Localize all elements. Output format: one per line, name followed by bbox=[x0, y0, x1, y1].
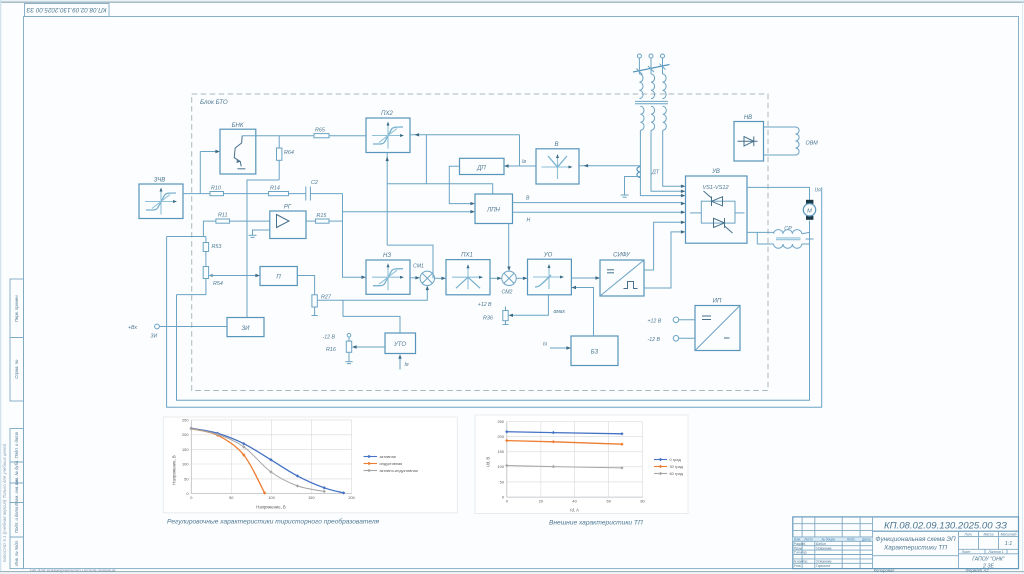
svg-text:Id, А: Id, А bbox=[570, 507, 579, 512]
BTO block dashed boundary bbox=[192, 94, 768, 391]
svg-text:Взам. инв. №: Взам. инв. № bbox=[14, 479, 19, 505]
block UO bbox=[528, 253, 572, 295]
wire phase B down to UV bbox=[651, 130, 681, 191]
svg-text:R36: R36 bbox=[483, 316, 493, 322]
svg-text:100: 100 bbox=[268, 495, 275, 500]
wire R27 wiper to SM1 bottom bbox=[318, 290, 428, 300]
wire R11 left to R53 chain bbox=[203, 221, 216, 236]
svg-text:150: 150 bbox=[182, 447, 189, 452]
svg-text:ЗИ: ЗИ bbox=[151, 334, 158, 340]
svg-text:nanoCAD 9.1 (учебная версия) Т: nanoCAD 9.1 (учебная версия) Только для … bbox=[2, 443, 7, 562]
svg-text:Напряжение, В: Напряжение, В bbox=[256, 505, 286, 510]
svg-text:Н.контр.: Н.контр. bbox=[794, 560, 808, 564]
svg-text:Т.контр.: Т.контр. bbox=[794, 551, 808, 555]
block BZ bbox=[571, 336, 618, 366]
wire LPN output N to UV bbox=[513, 211, 686, 224]
svg-text:М: М bbox=[807, 208, 812, 214]
terminal -12V bbox=[648, 336, 696, 344]
svg-text:200: 200 bbox=[498, 434, 505, 439]
svg-text:Гаршина: Гаршина bbox=[816, 564, 830, 568]
block V (rectifier) bbox=[536, 142, 579, 184]
wire ZChV output to R10 bbox=[183, 193, 210, 195]
wire SM2 to UO bbox=[516, 277, 523, 279]
resistor R15 bbox=[316, 213, 330, 223]
svg-text:Ud, В: Ud, В bbox=[486, 457, 491, 468]
block ZI bbox=[227, 318, 264, 337]
svg-text:-12 В: -12 В bbox=[323, 335, 336, 341]
svg-text:R27: R27 bbox=[321, 295, 332, 301]
svg-text:СИФУ: СИФУ bbox=[613, 253, 631, 259]
svg-text:C2: C2 bbox=[311, 180, 318, 186]
wire R65 to PKh2 bbox=[329, 135, 366, 137]
wire R54 wiper to P input bbox=[209, 275, 256, 277]
svg-text:активно-индуктивная: активно-индуктивная bbox=[380, 468, 418, 473]
resistor R65 bbox=[314, 128, 329, 138]
op-amp RG bbox=[249, 205, 307, 239]
capacitor C2 bbox=[306, 180, 318, 201]
motor M bbox=[803, 200, 815, 220]
svg-text:В: В bbox=[526, 196, 530, 202]
svg-text:ОВМ: ОВМ bbox=[806, 141, 819, 147]
resistor R10 bbox=[210, 186, 224, 196]
svg-text:Усманова: Усманова bbox=[816, 560, 831, 564]
svg-text:R15: R15 bbox=[317, 213, 328, 219]
title block bbox=[793, 517, 1019, 570]
svg-text:150: 150 bbox=[498, 449, 505, 454]
svg-text:ИП: ИП bbox=[713, 299, 722, 305]
wire SM1 to PKh1 bbox=[435, 277, 442, 279]
svg-text:Лист: Лист bbox=[961, 550, 971, 554]
svg-text:УТО: УТО bbox=[393, 342, 406, 348]
summing node SM1 bbox=[413, 264, 434, 286]
transformer 3-phase terminals bbox=[637, 54, 664, 67]
svg-text:100: 100 bbox=[498, 464, 505, 469]
potentiometer R16 bbox=[326, 337, 352, 353]
svg-text:Разраб.: Разраб. bbox=[794, 542, 806, 546]
svg-text:Функциональная схема ЭП: Функциональная схема ЭП bbox=[875, 536, 956, 543]
svg-text:Масса: Масса bbox=[983, 532, 993, 536]
wire y183.8 to LPN top bbox=[387, 184, 493, 194]
wire phase C with DT down to UV bbox=[640, 130, 681, 195]
wire outer feedback rail bbox=[167, 187, 822, 407]
block P bbox=[260, 267, 297, 286]
svg-text:200: 200 bbox=[182, 432, 189, 437]
wire SIFU output 2 to UV bbox=[644, 232, 681, 288]
wire BZ to UO right input bbox=[576, 288, 594, 337]
svg-text:+Вх: +Вх bbox=[128, 325, 137, 331]
svg-text:0 град: 0 град bbox=[670, 457, 682, 462]
svg-text:Регулировочные характеристики: Регулировочные характеристики тиристорно… bbox=[167, 518, 380, 526]
svg-text:Справ. №: Справ. № bbox=[14, 359, 19, 378]
svg-text:Uя: Uя bbox=[815, 188, 822, 194]
svg-text:Перв. примен.: Перв. примен. bbox=[14, 294, 19, 322]
wire x387 corner to SM1 node bbox=[387, 245, 433, 278]
rotated designation box top-left bbox=[25, 4, 110, 17]
block LPN bbox=[475, 194, 513, 224]
svg-text:ЗИ: ЗИ bbox=[242, 326, 251, 332]
block UTO bbox=[385, 333, 416, 354]
svg-text:НВ: НВ bbox=[744, 115, 752, 121]
block NV (exciter rectifier) bbox=[734, 115, 764, 161]
block PKh2 bbox=[366, 111, 410, 153]
svg-text:Iя: Iя bbox=[543, 342, 547, 348]
wire x247 vertical bbox=[246, 180, 248, 318]
wire C2 to node x342 bbox=[310, 193, 342, 195]
svg-text:Копировал: Копировал bbox=[874, 568, 895, 573]
svg-text:Н: Н bbox=[527, 218, 531, 224]
svg-text:КП.08.02.09.130.2025.00 ЗЗ: КП.08.02.09.130.2025.00 ЗЗ bbox=[884, 521, 1007, 532]
svg-text:Дата: Дата bbox=[861, 538, 871, 542]
svg-text:R11: R11 bbox=[218, 213, 228, 219]
svg-text:Лист: Лист bbox=[803, 538, 813, 542]
wire node x342 vertical down to NZ bbox=[343, 194, 362, 278]
svg-text:Характеристики ТП: Характеристики ТП bbox=[883, 545, 947, 552]
svg-text:Утв.: Утв. bbox=[794, 564, 802, 568]
transformer core bbox=[635, 100, 668, 102]
svg-text:R65: R65 bbox=[315, 128, 326, 134]
wire UV bottom output to reactor bbox=[747, 231, 774, 233]
wire UO to SIFU bbox=[571, 277, 595, 279]
wire R14 to C2 bbox=[289, 193, 306, 195]
svg-text:КП.08.02.09.130.2025.00 ЗЗ: КП.08.02.09.130.2025.00 ЗЗ bbox=[26, 6, 106, 13]
ground at transformer bbox=[621, 177, 641, 198]
svg-text:Подп.: Подп. bbox=[847, 538, 856, 542]
svg-text:П: П bbox=[276, 275, 281, 281]
svg-text:Iв: Iв bbox=[522, 159, 526, 165]
block PKh1 bbox=[446, 253, 490, 295]
terminal +12V bbox=[648, 317, 696, 325]
resistor R11 bbox=[216, 213, 230, 224]
input terminal Vkh bbox=[128, 324, 227, 339]
wire SIFU output 1 to UV bbox=[644, 222, 681, 270]
chart: external characteristics bbox=[475, 415, 688, 514]
svg-text:ГАПОУ "ОНК": ГАПОУ "ОНК" bbox=[972, 557, 1006, 563]
wire node to BNK input bbox=[199, 152, 201, 194]
current sensor DT bbox=[637, 167, 660, 178]
svg-text:150: 150 bbox=[308, 495, 315, 500]
svg-text:Формат А2: Формат А2 bbox=[966, 568, 990, 573]
wire tap x519 up to PKh2 line bbox=[519, 135, 521, 166]
svg-text:ДП: ДП bbox=[476, 165, 486, 171]
wire inner feedback rail bbox=[177, 244, 810, 400]
svg-text:Изм.: Изм. bbox=[794, 538, 801, 542]
svg-text:Листов 1: Листов 1 bbox=[987, 550, 1003, 554]
svg-text:30 град: 30 град bbox=[670, 464, 684, 469]
svg-text:1:1: 1:1 bbox=[1005, 541, 1013, 547]
svg-text:R16: R16 bbox=[326, 347, 336, 353]
wire PKh1 to SM2 bbox=[490, 277, 497, 279]
svg-text:Напряжение, В: Напряжение, В bbox=[172, 455, 177, 485]
svg-text:+12 В: +12 В bbox=[648, 319, 662, 325]
wire R64 stubs bbox=[278, 136, 280, 148]
block ZChV (speed setpoint) bbox=[139, 178, 183, 219]
resistor R53 bbox=[203, 237, 221, 252]
wire UO bottom to R36 (alpha max) bbox=[513, 295, 549, 316]
block BNK bbox=[220, 123, 256, 174]
svg-text:R10: R10 bbox=[211, 186, 221, 192]
wire phase A down to UV bbox=[663, 130, 681, 186]
svg-text:БЗ: БЗ bbox=[591, 349, 599, 355]
svg-text:ПХ1: ПХ1 bbox=[461, 253, 473, 259]
svg-text:Пров.: Пров. bbox=[794, 546, 803, 550]
svg-text:200: 200 bbox=[348, 495, 355, 500]
wire R53 top tie to outer rail bbox=[167, 236, 206, 238]
wire UTO top input from R27 node bbox=[343, 300, 400, 333]
wire PKh2 bottom vertical bbox=[386, 153, 388, 246]
wire R54 bottom to inner rail bbox=[177, 279, 206, 295]
wire P output to R27 bbox=[297, 276, 314, 295]
svg-text:+12 В: +12 В bbox=[478, 302, 492, 308]
wire RG to R15 to node bbox=[306, 220, 316, 222]
svg-text:Лит.: Лит. bbox=[964, 532, 973, 536]
svg-text:№ докум.: № докум. bbox=[821, 538, 835, 542]
wire DP output to LPN bbox=[449, 166, 470, 203]
chart: regulation characteristics bbox=[163, 417, 457, 513]
svg-text:СМ2: СМ2 bbox=[502, 290, 513, 296]
svg-text:Бабин: Бабин bbox=[816, 542, 826, 546]
wire R10 to R14 bbox=[224, 193, 269, 195]
wire junction x426 down to LPN top line bbox=[425, 135, 427, 184]
block UV thyristors VS1-VS12 bbox=[686, 169, 748, 243]
transformer primary windings bbox=[639, 67, 666, 99]
resistor R64 bbox=[277, 148, 294, 160]
svg-text:R54: R54 bbox=[213, 281, 223, 287]
wire node x342 to LPN left input bbox=[343, 211, 471, 213]
svg-text:ДТ: ДТ bbox=[651, 170, 660, 176]
svg-text:250: 250 bbox=[182, 417, 189, 422]
svg-text:ЗЧВ: ЗЧВ bbox=[154, 178, 166, 184]
svg-text:Подп. и дата: Подп. и дата bbox=[14, 431, 19, 458]
svg-text:индуктивная: индуктивная bbox=[380, 461, 403, 466]
wire PKh2 input from V tap bbox=[410, 134, 520, 136]
svg-text:В: В bbox=[554, 142, 558, 148]
svg-text:100: 100 bbox=[182, 461, 189, 466]
ground below R16 bbox=[345, 352, 352, 363]
block DP bbox=[460, 158, 505, 174]
resistor R14 bbox=[269, 186, 289, 196]
svg-text:Масштаб: Масштаб bbox=[1001, 532, 1017, 536]
wire V input from phase wire bbox=[579, 165, 640, 167]
wire UV output top to motor bbox=[747, 187, 810, 199]
svg-text:ЛПН: ЛПН bbox=[486, 208, 500, 214]
wire motor bottom to reactor node bbox=[809, 221, 811, 244]
svg-text:УВ: УВ bbox=[711, 169, 720, 175]
wire V output to DP bbox=[509, 165, 537, 167]
wire R11 right to RG bbox=[230, 220, 270, 222]
svg-text:αмах: αмах bbox=[554, 309, 566, 315]
block NZ bbox=[366, 253, 410, 294]
wire UTO bottom input Iya bbox=[398, 354, 409, 369]
svg-text:Подп. и дата: Подп. и дата bbox=[14, 506, 19, 533]
wire NZ to SM1 bbox=[410, 277, 416, 279]
svg-text:250: 250 bbox=[498, 419, 505, 424]
svg-text:Блок БТО: Блок БТО bbox=[200, 99, 228, 106]
potentiometer R27 bbox=[312, 295, 332, 316]
potentiometer R54 bbox=[203, 252, 223, 288]
left frame stamp cells bbox=[10, 279, 24, 569]
svg-text:-12 В: -12 В bbox=[648, 337, 661, 343]
breaker switch bbox=[633, 65, 670, 73]
svg-text:БНК: БНК bbox=[232, 123, 244, 129]
svg-text:СМ1: СМ1 bbox=[413, 264, 424, 270]
winding OVM (motor field) bbox=[764, 127, 819, 155]
resistor R36 bbox=[483, 307, 509, 325]
svg-text:R14: R14 bbox=[270, 186, 280, 192]
wire LPN output V to UV bbox=[513, 196, 686, 206]
svg-text:R64: R64 bbox=[284, 150, 294, 156]
svg-text:ПХ2: ПХ2 bbox=[381, 111, 393, 117]
block SIFU bbox=[600, 253, 644, 297]
wire BNK output to R65 line bbox=[242, 135, 314, 137]
svg-text:60 град: 60 град bbox=[670, 471, 684, 476]
svg-text:НЗ: НЗ bbox=[383, 253, 391, 259]
svg-text:Инв. № подл.: Инв. № подл. bbox=[14, 540, 19, 566]
block IP power supply bbox=[695, 299, 740, 351]
terminal -12V bbox=[323, 333, 351, 340]
svg-text:Iя: Iя bbox=[405, 362, 409, 368]
wire BZ input Iya bbox=[543, 342, 571, 350]
summing node SM2 bbox=[502, 271, 517, 295]
svg-text:Усманова: Усманова bbox=[816, 546, 831, 550]
svg-text:Внешние характеристики ТП: Внешние характеристики ТП bbox=[549, 520, 643, 527]
svg-text:УО: УО bbox=[543, 253, 553, 259]
svg-text:Не для коммерческого использов: Не для коммерческого использования bbox=[30, 568, 116, 574]
svg-text:R53: R53 bbox=[212, 244, 222, 250]
transformer secondary windings bbox=[640, 106, 666, 130]
wire R16 wiper from UTO bbox=[356, 346, 385, 348]
svg-text:VS1-VS12: VS1-VS12 bbox=[702, 185, 729, 191]
wire LPN bottom to SM2 top bbox=[508, 224, 510, 267]
smoothing reactor SR bbox=[757, 226, 813, 248]
svg-text:РГ: РГ bbox=[284, 205, 292, 211]
svg-text:активная: активная bbox=[380, 454, 396, 459]
